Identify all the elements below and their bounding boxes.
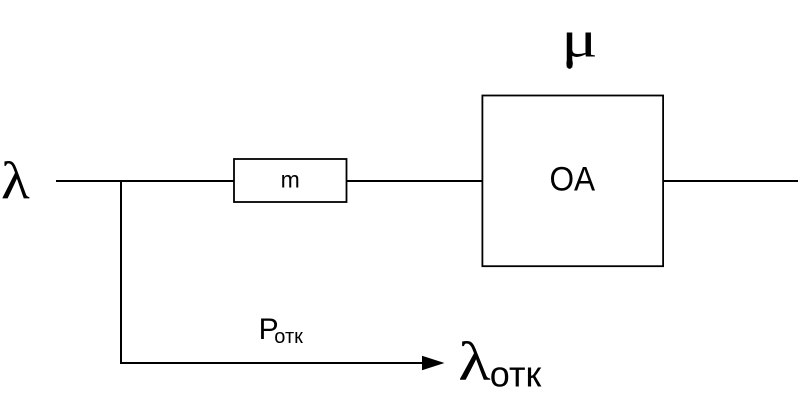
svg-text:λ: λ [1,152,30,210]
decorative teardrop on μ descender [566,58,572,69]
label μ (service rate) above block OA [561,11,597,68]
svg-text:μ: μ [561,11,597,68]
wire: rejected-flow arrow line [120,362,423,364]
svg-text:λ: λ [458,330,491,392]
svg-text:OA: OA [549,159,595,197]
wire: line from block m to block OA [347,180,483,182]
svg-text:отк: отк [490,353,542,394]
svg-text:m: m [281,167,300,193]
block m (queue buffer) [234,159,347,202]
node λ (input flow label) [1,152,30,210]
block OA (service device) [482,96,663,267]
svg-text:отк: отк [274,326,303,348]
label Pотк (failure probability) [259,313,304,348]
node λотк (rejected flow label) [458,330,541,394]
wire: input line from λ to block m [56,180,234,182]
arrowhead of rejected-flow arrow [422,356,445,371]
wire: branch vertical line at junction x=120.5 [120,180,122,363]
wire: output line from block OA to right edge [663,180,798,182]
